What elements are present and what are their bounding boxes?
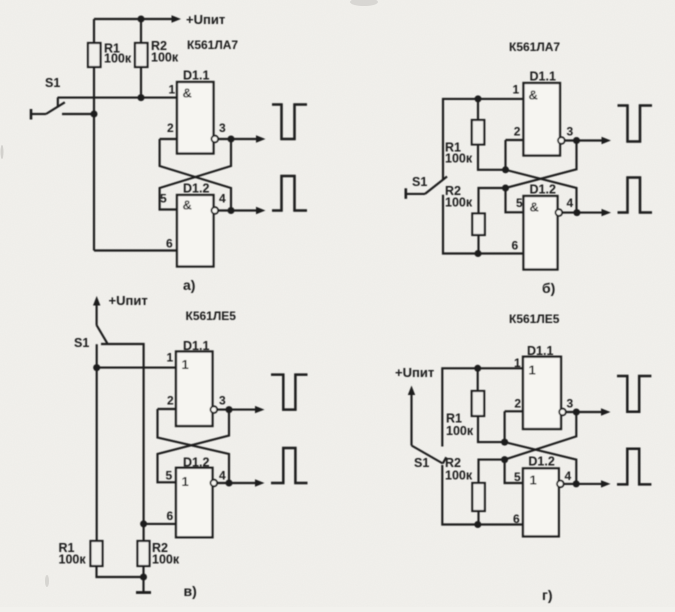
wire pin 2 (г)	[505, 410, 523, 412]
wire R1 bottom to pin6 rail (a)	[93, 67, 95, 251]
svg-text:4: 4	[219, 192, 226, 206]
svg-text:+Uпит: +Uпит	[186, 12, 225, 27]
wire upper rail to pin1 (г)	[442, 368, 523, 446]
resistor R1 (a)	[93, 19, 95, 43]
wire R2 bottom (в)	[142, 566, 144, 577]
svg-text:&: &	[183, 86, 192, 101]
wire output 4 (г)	[564, 483, 602, 485]
inverter bubble pin4 (б)	[556, 209, 563, 216]
node R2/pin1 junction (a)	[138, 94, 145, 101]
svg-text:D1.2: D1.2	[528, 455, 554, 469]
wire switch lower throw (a)	[62, 113, 94, 115]
resistor R1 (г)	[477, 368, 479, 391]
waveform positive pulse (в)	[271, 448, 308, 483]
node pin1/R1 junction (б)	[475, 95, 482, 102]
ground symbol (в)	[142, 577, 144, 593]
svg-text:100к: 100к	[445, 196, 473, 210]
arrow output 3 (б)	[602, 137, 612, 144]
svg-text:5: 5	[166, 469, 173, 483]
node R2 bottom / pin6 (г)	[474, 521, 481, 528]
svg-text:3: 3	[219, 394, 226, 408]
svg-text:100к: 100к	[445, 469, 473, 483]
inverter bubble pin3 (г)	[559, 409, 566, 416]
wire lower rail to pin6 (б)	[443, 195, 524, 254]
svg-text:3: 3	[567, 125, 574, 139]
wire cross-coupling out3 to pin5 (a)	[160, 139, 231, 210]
node lower throw junction (a)	[91, 111, 98, 118]
node output 4 (г)	[573, 480, 580, 487]
wire cross-coupling pin2 to out4 (a)	[160, 139, 231, 211]
svg-text:6: 6	[166, 237, 173, 251]
arrow output 3 (в)	[255, 406, 265, 413]
svg-text:D1.1: D1.1	[530, 70, 556, 84]
switch contact bar and right rail to R2 (в)	[101, 344, 144, 541]
svg-text:2: 2	[167, 121, 174, 135]
svg-text:&: &	[529, 88, 538, 103]
arrow output 4 (в)	[255, 479, 265, 486]
inverter bubble pin3 (в)	[211, 406, 218, 413]
arrow output 3 (a)	[256, 135, 266, 142]
svg-text:S1: S1	[45, 76, 60, 90]
resistor R2 (в)	[138, 541, 150, 566]
wire pin2 node down to R1 node (б)	[504, 140, 506, 170]
inverter bubble pin4 (a)	[212, 207, 219, 214]
wire pin 2 (a)	[160, 138, 177, 140]
svg-text:1: 1	[514, 356, 521, 370]
wire +U supply rail (a)	[94, 18, 172, 20]
svg-text:1: 1	[530, 473, 537, 488]
svg-text:100к: 100к	[446, 424, 474, 438]
inverter bubble pin4 (г)	[557, 481, 564, 488]
node R2/pin5 (г)	[501, 456, 508, 463]
node R2 bottom / pin6 (б)	[475, 250, 482, 257]
wire R1 bottom to node (б)	[478, 145, 506, 170]
waveform positive pulse (г)	[617, 449, 651, 485]
node output 4 (в)	[226, 480, 233, 487]
switch S1 lever (г)	[412, 446, 443, 464]
svg-text:+Uпит: +Uпит	[109, 293, 148, 308]
arrow output 4 (г)	[601, 480, 611, 487]
node pin6 junction (в)	[140, 520, 147, 527]
svg-text:г): г)	[542, 587, 553, 603]
svg-text:6: 6	[167, 509, 174, 523]
resistor R2 (a)	[140, 19, 142, 43]
inverter bubble pin3 (б)	[558, 137, 565, 144]
wire cross-coupling out3 to pin5 (в)	[158, 410, 230, 483]
switch S1 (б)	[404, 188, 407, 199]
svg-text:+Uпит: +Uпит	[395, 365, 434, 380]
inverter bubble pin3 (a)	[212, 136, 219, 143]
svg-text:S1: S1	[414, 456, 429, 470]
svg-text:1: 1	[513, 83, 520, 97]
svg-text:D1.2: D1.2	[183, 182, 209, 196]
svg-text:2: 2	[167, 394, 174, 408]
svg-text:S1: S1	[74, 336, 89, 350]
node output 4 (a)	[228, 207, 235, 214]
arrow +Uпит (г)	[410, 393, 412, 446]
svg-text:D1.1: D1.1	[183, 69, 209, 83]
svg-text:6: 6	[513, 512, 520, 526]
wire pin2 node down to R1 node (г)	[504, 411, 506, 442]
svg-text:К561ЛА7: К561ЛА7	[509, 40, 560, 54]
svg-text:б): б)	[542, 280, 555, 296]
node output 3 (б)	[573, 137, 580, 144]
wire R2 bottom (a)	[140, 67, 142, 98]
wire R1 bottom to node (г)	[478, 416, 505, 442]
wire output 4 (в)	[217, 482, 256, 484]
svg-text:5: 5	[514, 470, 521, 484]
wire pin 1 (в)	[97, 367, 176, 369]
wire left rail to R1 (в)	[96, 344, 98, 541]
svg-text:К561ЛА7: К561ЛА7	[187, 38, 238, 52]
resistor R1 (в)	[91, 541, 103, 566]
svg-text:3: 3	[219, 121, 226, 135]
node output 3 (a)	[228, 136, 235, 143]
node R1/pin2 (г)	[501, 439, 508, 446]
svg-text:100к: 100к	[59, 553, 87, 567]
svg-text:в): в)	[184, 583, 197, 599]
svg-text:К561ЛЕ5: К561ЛЕ5	[509, 312, 560, 326]
arrow +Uпит (в)	[96, 304, 98, 325]
node pin1/R1 (г)	[474, 365, 481, 372]
svg-text:3: 3	[567, 397, 574, 411]
wire pin 6 (в)	[144, 523, 176, 525]
wire pin 2 (в)	[158, 408, 177, 410]
svg-text:К561ЛЕ5: К561ЛЕ5	[186, 309, 237, 323]
node output 3 (г)	[573, 409, 580, 416]
svg-text:S1: S1	[412, 175, 427, 189]
svg-text:1: 1	[169, 83, 176, 97]
svg-text:5: 5	[516, 196, 523, 210]
resistor R1 (б)	[477, 99, 479, 120]
wire cross-coupling R1-node to out4 (б)	[506, 170, 577, 213]
svg-text:100к: 100к	[445, 152, 473, 166]
svg-text:D1.2: D1.2	[530, 183, 556, 197]
node ground junction (в)	[140, 574, 147, 581]
wire cross-coupling pin2 to out4 (в)	[158, 409, 230, 483]
waveform negative pulse (a)	[272, 105, 307, 140]
waveform positive pulse (a)	[272, 176, 307, 211]
switch S1 lever (в)	[97, 325, 108, 343]
svg-text:1: 1	[182, 474, 189, 489]
switch S1 (a)	[30, 109, 33, 120]
wire output 4 (б)	[562, 212, 602, 214]
arrow to +Uпит (a)	[172, 15, 182, 22]
wire upper rail to pin1 (б)	[443, 99, 524, 180]
svg-text:1: 1	[182, 357, 189, 372]
node output 4 (б)	[573, 209, 580, 216]
wire R1 bottom (в)	[97, 566, 144, 577]
svg-text:100к: 100к	[104, 52, 132, 66]
wire output 3 (б)	[565, 139, 603, 141]
wire pin 2 (б)	[506, 139, 524, 141]
arrow output 4 (б)	[602, 209, 612, 216]
wire cross-coupling out3 to pin5/R2 (г)	[505, 412, 577, 483]
waveform negative pulse (в)	[271, 375, 308, 410]
wire cross-coupling R1-node to out4 (г)	[505, 442, 577, 484]
node R2/pin5 (б)	[502, 185, 509, 192]
waveform negative pulse (г)	[617, 376, 651, 412]
wire pin 6 (a)	[94, 249, 177, 251]
svg-text:2: 2	[514, 125, 521, 139]
node output 3 (в)	[226, 406, 233, 413]
inverter bubble pin4 (в)	[211, 480, 218, 487]
node supply junction R2 (a)	[138, 16, 145, 23]
svg-text:100к: 100к	[152, 553, 180, 567]
waveform negative pulse (б)	[618, 106, 653, 142]
svg-text:&: &	[530, 200, 539, 215]
wire pin1 net (a)	[58, 97, 178, 99]
svg-text:&: &	[183, 198, 192, 213]
wire lower rail to pin6 (г)	[442, 465, 523, 525]
wire output 3 (a)	[218, 138, 257, 140]
svg-text:1: 1	[529, 363, 536, 378]
svg-text:6: 6	[512, 239, 519, 253]
svg-text:5: 5	[160, 192, 167, 206]
arrow output 3 (г)	[601, 408, 611, 415]
svg-text:4: 4	[219, 469, 226, 483]
svg-text:2: 2	[514, 397, 521, 411]
waveform positive pulse (б)	[618, 178, 653, 213]
arrow output 4 (a)	[256, 207, 266, 214]
svg-text:4: 4	[567, 196, 574, 210]
node pin1 junction (в)	[93, 364, 100, 371]
wire output 3 (в)	[217, 409, 256, 411]
svg-text:4: 4	[565, 469, 572, 483]
svg-text:а): а)	[183, 277, 195, 293]
svg-text:1: 1	[167, 351, 174, 365]
wire output 4 (a)	[218, 209, 257, 211]
node R1/pin2 (б)	[502, 166, 509, 173]
svg-text:100к: 100к	[151, 51, 179, 65]
wire cross-coupling out3 to pin5/R2 (б)	[506, 141, 577, 213]
wire output 3 (г)	[566, 411, 602, 413]
